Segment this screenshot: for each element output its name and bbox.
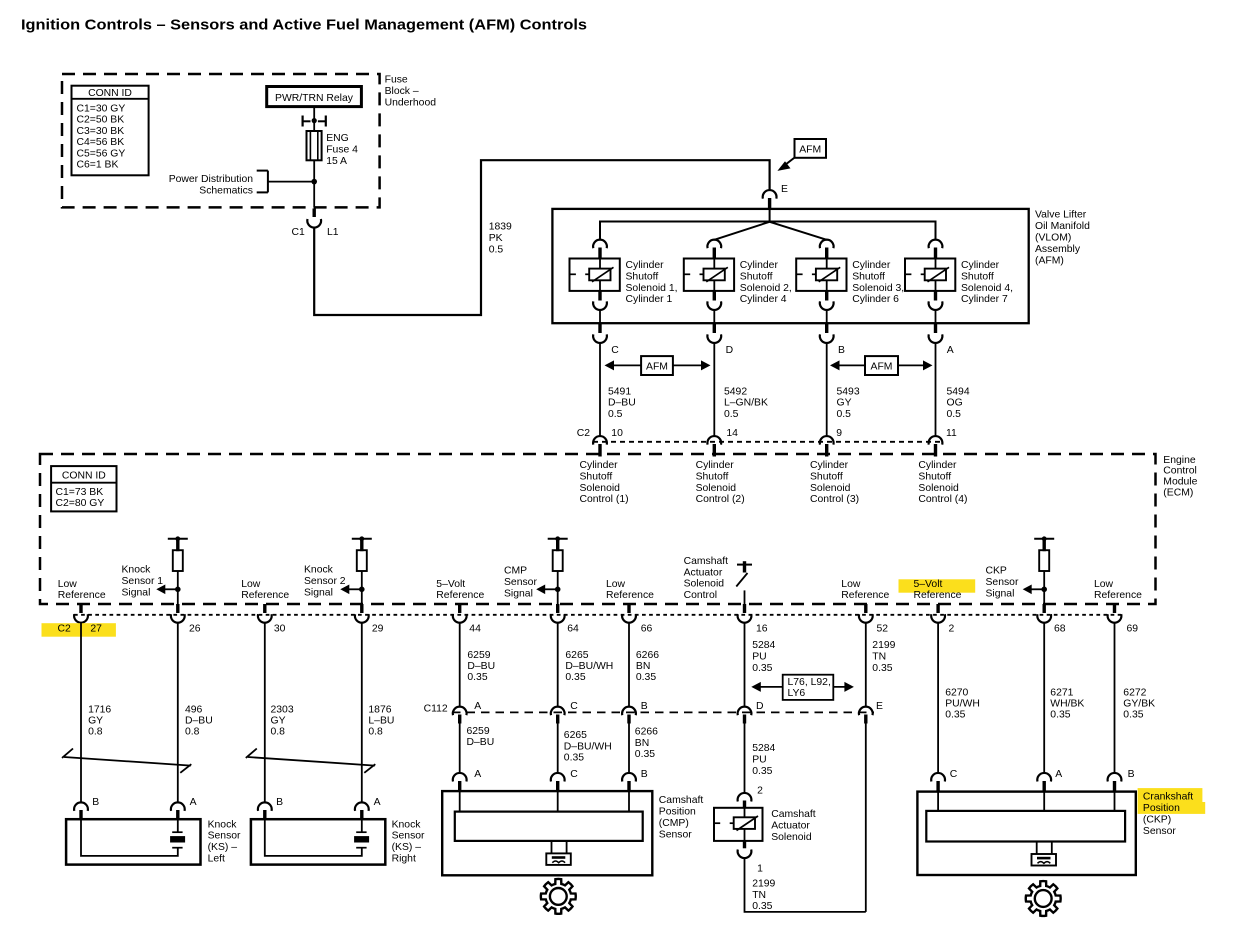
CKP internal connector: [1036, 842, 1038, 855]
svg-text:16: 16: [756, 623, 768, 634]
wire C112 C to CMP: [557, 724, 559, 773]
svg-text:B: B: [641, 701, 648, 712]
svg-text:C1=73 BKC2=80 GY: C1=73 BKC2=80 GY: [56, 487, 105, 509]
svg-text:29: 29: [372, 623, 384, 634]
svg-text:C: C: [570, 769, 578, 780]
wire relay to fuse: [313, 107, 315, 131]
svg-text:11: 11: [946, 428, 957, 439]
power distribution bracket: [267, 171, 269, 193]
wire terminal 52 to C112: [865, 622, 867, 706]
camshaft actuator solenoid control driver: [737, 564, 752, 566]
wire terminal 30 to knock sensor right B: [264, 622, 266, 802]
svg-text:A: A: [474, 769, 481, 780]
connector B below VLOM: [825, 323, 828, 333]
highlight crankshaft position: [1138, 788, 1203, 802]
connector pin 2 at ECM bottom: [936, 604, 939, 613]
svg-text:EngineControlModule(ECM): EngineControlModule(ECM): [1163, 455, 1197, 499]
connector CMP B: [622, 773, 636, 782]
twisted pair mark knock sensor right: [248, 757, 375, 766]
svg-text:2: 2: [949, 623, 955, 634]
wire C112 E down: [865, 724, 867, 912]
svg-text:E: E: [876, 701, 883, 712]
wire diagonal to solenoid 3: [770, 222, 827, 240]
svg-text:B: B: [838, 345, 845, 356]
svg-text:C: C: [611, 345, 619, 356]
connector pin 16 at ECM bottom: [743, 604, 746, 613]
wire C112 B to CMP: [628, 724, 630, 773]
knock sensor left box: [66, 819, 200, 864]
connector knock sensor left B: [74, 802, 88, 811]
CMP pull-up resistor: [548, 538, 568, 540]
svg-text:44: 44: [469, 623, 481, 634]
connector CKP B: [1108, 773, 1122, 782]
svg-text:A: A: [190, 797, 197, 808]
AFM callout arrow: [783, 158, 794, 167]
svg-text:AFM: AFM: [799, 144, 821, 155]
svg-text:C1: C1: [292, 227, 306, 238]
svg-text:14: 14: [726, 428, 738, 439]
connector C112 E: [859, 707, 873, 716]
knock sensor 2 pull-up resistor: [352, 538, 372, 540]
connector E: [763, 190, 777, 199]
wire terminal 68 to CKP: [1043, 622, 1045, 772]
CKP sensor box: [917, 792, 1135, 875]
connector C112 D: [738, 707, 752, 716]
connector CKP C: [931, 773, 945, 782]
svg-text:AFM: AFM: [646, 362, 668, 373]
wire terminal 64 to C112: [557, 622, 559, 706]
connector pin 69 at ECM bottom: [1113, 604, 1116, 613]
svg-text:2: 2: [757, 786, 763, 797]
svg-text:D: D: [726, 345, 734, 356]
CMP reluctor gear: [541, 879, 576, 914]
ECM dashed border: [40, 454, 1156, 604]
cylinder shutoff solenoid 2: [707, 240, 721, 249]
svg-text:C2: C2: [577, 428, 591, 439]
svg-text:PWR/TRN Relay: PWR/TRN Relay: [275, 93, 354, 104]
knock sensor left internal wiring: [81, 819, 178, 856]
fuse block CONN ID table: [72, 86, 149, 176]
connector pin 52 at ECM bottom: [864, 604, 867, 613]
svg-text:A: A: [1055, 769, 1062, 780]
connector pin 14 into ECM: [707, 436, 721, 445]
relay terminal symbol: [302, 116, 304, 127]
connector knock sensor left A: [171, 802, 185, 811]
connector pin 44 at ECM bottom: [458, 604, 461, 613]
connector C below VLOM: [598, 323, 601, 333]
connector pin 30 at ECM bottom: [263, 604, 266, 613]
ECM top connector row dotted line: [593, 441, 943, 443]
CKP reluctor gear: [1026, 881, 1061, 916]
svg-text:C: C: [950, 769, 958, 780]
wire terminal 16 to C112: [744, 622, 746, 706]
CMP internal connector: [551, 841, 553, 854]
connector C1 L1: [313, 209, 316, 218]
svg-text:Ignition Controls – Sensors an: Ignition Controls – Sensors and Active F…: [21, 17, 587, 34]
connector pin 9 into ECM: [820, 436, 834, 445]
wire terminal 26 to knock sensor left A: [177, 622, 179, 802]
svg-text:AFM: AFM: [871, 362, 893, 373]
svg-text:64: 64: [567, 623, 579, 634]
AFM span arrow 1: [607, 364, 642, 366]
svg-text:52: 52: [877, 623, 889, 634]
fuse ENG Fuse 4 15 A: [307, 131, 322, 160]
svg-text:A: A: [374, 797, 381, 808]
VLOM assembly box: [552, 209, 1028, 323]
svg-text:10: 10: [611, 428, 623, 439]
cylinder shutoff solenoid 3: [820, 240, 834, 249]
AFM span arrow 2: [832, 364, 865, 366]
wire actuator pin 1 to E: [745, 858, 866, 912]
CMP sensor box: [442, 791, 652, 875]
camshaft actuator solenoid box: [714, 808, 763, 841]
C112 dotted line: [452, 711, 874, 713]
PWR/TRN Relay box: [267, 87, 362, 107]
svg-text:26: 26: [189, 623, 201, 634]
connector pin 29 at ECM bottom: [360, 604, 363, 613]
ECM CONN ID table: [51, 466, 116, 511]
connector D below VLOM: [713, 323, 716, 333]
svg-text:27: 27: [90, 623, 102, 634]
svg-text:9: 9: [836, 428, 842, 439]
svg-text:66: 66: [641, 623, 653, 634]
connector A below VLOM: [934, 323, 937, 333]
svg-text:C1=30 GYC2=50 BKC3=30 BKC4=56: C1=30 GYC2=50 BKC3=30 BKC4=56 BKC5=56 GY…: [77, 104, 126, 171]
CKP pull-up resistor: [1034, 538, 1054, 540]
knock sensor right box: [251, 819, 385, 864]
svg-text:30: 30: [274, 623, 286, 634]
connector pin 10 into ECM: [593, 436, 607, 445]
svg-text:C2: C2: [58, 623, 72, 634]
connector pin 68 at ECM bottom: [1042, 604, 1045, 613]
wire terminal 29 to knock sensor right A: [361, 622, 363, 802]
knock sensor right piezo element: [356, 831, 366, 833]
knock sensor left piezo element: [172, 831, 182, 833]
connector CKP A: [1037, 773, 1051, 782]
connector pin 66 at ECM bottom: [627, 604, 630, 613]
wire terminal 44 to C112: [459, 622, 461, 706]
wire C112 A to CMP: [459, 724, 461, 773]
wire terminal 66 to C112: [628, 622, 630, 706]
connector camshaft actuator pin 2: [738, 793, 752, 802]
fuse block - underhood dashed box: [62, 74, 380, 207]
highlight 5-volt reference: [899, 579, 976, 592]
connector pin 27 at ECM bottom: [79, 604, 82, 613]
highlight C2 27: [42, 623, 116, 637]
svg-text:CamshaftActuatorSolenoid: CamshaftActuatorSolenoid: [771, 809, 816, 843]
wire diagonal to solenoid 2: [714, 222, 769, 240]
svg-text:C112: C112: [424, 703, 448, 714]
svg-text:C: C: [570, 701, 578, 712]
svg-text:L1: L1: [327, 227, 339, 238]
svg-text:B: B: [641, 769, 648, 780]
wire terminal 27 to knock sensor left B: [80, 622, 82, 802]
connector CMP C: [551, 773, 565, 782]
cylinder shutoff solenoid 1: [593, 240, 607, 249]
wire VLOM internal bus: [600, 222, 936, 240]
connector knock sensor right B: [258, 802, 272, 811]
svg-text:B: B: [276, 797, 283, 808]
svg-text:D: D: [756, 701, 764, 712]
knock sensor 1 pull-up resistor: [168, 538, 188, 540]
connector knock sensor right A: [355, 802, 369, 811]
connector C112 B: [622, 707, 636, 716]
twisted pair mark knock sensor left: [64, 757, 191, 766]
svg-text:CONN ID: CONN ID: [62, 471, 106, 482]
connector pin 11 into ECM: [929, 436, 943, 445]
connector pin 26 at ECM bottom: [176, 604, 179, 613]
wire terminal 2 to CKP: [937, 622, 939, 772]
cylinder shutoff solenoid 4: [929, 240, 943, 249]
engine option callout L76 L92 LY6: [753, 686, 782, 688]
wire E to bus: [769, 210, 771, 223]
wire terminal 69 to CKP: [1114, 622, 1116, 772]
svg-text:CONN ID: CONN ID: [88, 88, 132, 99]
ECM bottom connector dotted line: [74, 614, 1121, 616]
svg-text:A: A: [947, 345, 954, 356]
svg-text:69: 69: [1127, 623, 1139, 634]
junction dot: [311, 179, 317, 185]
connector pin 64 at ECM bottom: [556, 604, 559, 613]
connector C112 A: [453, 707, 467, 716]
knock sensor right internal wiring: [265, 819, 362, 856]
connector C112 C: [551, 707, 565, 716]
wire C112 D to actuator: [744, 724, 746, 794]
connector CMP A: [453, 773, 467, 782]
svg-text:68: 68: [1054, 623, 1066, 634]
wire 1839 PK feed path: [314, 160, 769, 315]
svg-text:1: 1: [757, 863, 763, 874]
svg-text:A: A: [474, 701, 481, 712]
AFM callout box: [795, 139, 827, 158]
svg-text:B: B: [92, 797, 99, 808]
svg-text:B: B: [1128, 769, 1135, 780]
svg-text:E: E: [781, 184, 788, 195]
wire fuse to junction: [313, 160, 315, 207]
connector camshaft actuator pin 1: [743, 841, 746, 848]
